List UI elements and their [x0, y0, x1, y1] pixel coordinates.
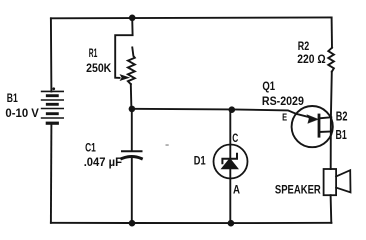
- speaker: [324, 169, 351, 195]
- wire speaker bottom lead: [330, 195, 333, 223]
- svg-text:SPEAKER: SPEAKER: [275, 183, 321, 197]
- node junction R1 bottom / middle wire: [129, 106, 136, 113]
- wire left rail lower (battery bottom lead): [50, 123, 53, 223]
- wire right rail upper (top rail to R2): [331, 17, 333, 47]
- capacitor C1: [122, 109, 142, 223]
- node junction C1 bottom: [129, 220, 136, 227]
- svg-text:A: A: [233, 182, 240, 196]
- wire top rail: [51, 16, 332, 19]
- node junction D1 top: [229, 106, 236, 113]
- resistor R1 rheostat: [115, 18, 135, 109]
- diode D1 zener: [214, 110, 248, 224]
- wire bottom rail: [51, 222, 332, 224]
- wire left rail upper (battery top lead): [50, 18, 53, 91]
- wire right rail lower (R2 to speaker, past B2/B1): [331, 72, 332, 169]
- node junction D1 bottom: [228, 220, 235, 227]
- svg-text:RS-2029: RS-2029: [262, 94, 304, 108]
- svg-text:B2: B2: [336, 109, 348, 123]
- svg-text:Q1: Q1: [262, 79, 275, 93]
- transistor Q1: [292, 106, 333, 147]
- svg-text:C1: C1: [85, 140, 96, 154]
- resistor R2: [328, 48, 334, 72]
- svg-text:220 Ω: 220 Ω: [297, 52, 326, 66]
- svg-text:D1: D1: [194, 154, 206, 168]
- svg-text:B1: B1: [7, 91, 18, 105]
- node junction R1 top: [129, 14, 136, 21]
- svg-text:R1: R1: [89, 46, 98, 60]
- svg-text:B1: B1: [336, 128, 347, 142]
- svg-text:0-10 V: 0-10 V: [5, 106, 39, 120]
- svg-text:.047 µF: .047 µF: [84, 155, 122, 169]
- svg-text:250K: 250K: [86, 61, 111, 75]
- wire middle (R1 bottom to Q1 emitter): [132, 109, 296, 114]
- battery B1: [42, 87, 64, 123]
- svg-text:E: E: [282, 112, 287, 123]
- svg-text:C: C: [232, 131, 238, 145]
